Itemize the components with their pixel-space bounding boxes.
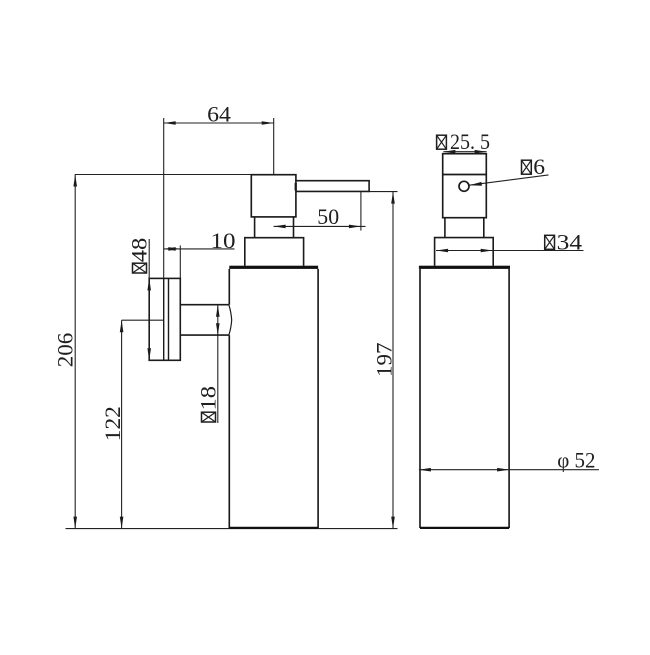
wall plate seam lines — [164, 278, 169, 360]
pump head (side view) — [251, 175, 296, 217]
dimension 122 line — [122, 320, 164, 528]
bottle body (front view) — [420, 269, 509, 528]
bottle bottom (front view) — [420, 527, 509, 529]
dimension 197 line — [369, 192, 397, 529]
label d6 — [522, 154, 546, 179]
dimension 206 line — [74, 175, 76, 529]
svg-text:48: 48 — [127, 238, 152, 262]
bottle bottom (side view) — [229, 527, 318, 529]
wire: bottom baseline extension — [66, 528, 398, 530]
svg-text:34: 34 — [557, 229, 583, 254]
pump head seam (front view) — [443, 174, 487, 176]
dimension 10 line — [164, 246, 235, 279]
pump stem (front view) — [445, 218, 484, 238]
dimension d18 line — [217, 305, 219, 423]
spout (side view) — [296, 181, 369, 192]
bracket arm end arc — [229, 305, 232, 335]
svg-text:122: 122 — [100, 406, 125, 441]
dimension 50 line — [274, 192, 366, 231]
svg-text:φ 52: φ 52 — [557, 448, 595, 473]
svg-text:18: 18 — [196, 386, 221, 411]
dimension phi52 line — [419, 469, 599, 471]
bottle body (side view) — [229, 269, 318, 528]
dimension d34 line — [436, 250, 583, 252]
wall plate — [149, 278, 180, 360]
dimension d48 line — [148, 239, 150, 360]
wire: top extension line from pump head to 206 dim — [75, 174, 251, 176]
pump stem (side view) — [255, 217, 294, 238]
label d25.5 — [437, 129, 490, 154]
label d34 — [545, 229, 582, 254]
label d18 (rotated, box glyph + digits) — [196, 386, 221, 422]
bottle cap rim thick line (side view) — [229, 266, 318, 269]
pump collar (side view) — [245, 238, 304, 266]
svg-text:50: 50 — [317, 204, 339, 229]
dimension d25.5 line — [443, 151, 486, 153]
svg-text:6: 6 — [533, 154, 545, 179]
dimension 64 line — [164, 118, 274, 278]
svg-text:25. 5: 25. 5 — [450, 129, 490, 154]
bottle cap rim thick line (front view) — [419, 266, 510, 269]
svg-text:197: 197 — [371, 343, 396, 378]
spout root thick mark — [295, 183, 297, 191]
svg-text:206: 206 — [52, 333, 77, 368]
leader line for d6 — [469, 175, 548, 185]
svg-text:64: 64 — [207, 102, 231, 127]
nozzle hole d6 — [459, 181, 469, 191]
pump head (front view) — [443, 154, 487, 218]
pump collar (front view) — [435, 238, 494, 266]
label d48 (rotated, box glyph + digits) — [127, 238, 152, 273]
svg-text:10: 10 — [211, 228, 236, 253]
bracket arm — [180, 305, 229, 335]
